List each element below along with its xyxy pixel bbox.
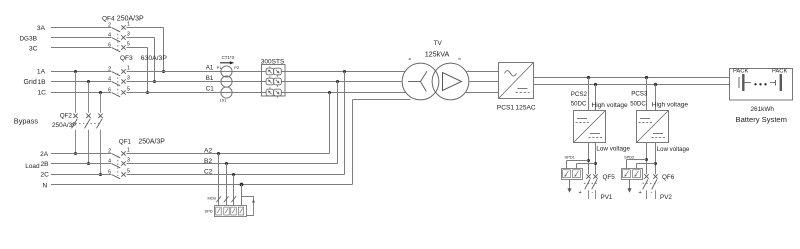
wire SPD2 stub positive (627, 159, 647, 161)
transformer primary winding (402, 63, 439, 100)
svg-text:125AC: 125AC (516, 104, 536, 111)
svg-text:261kWh: 261kWh (751, 106, 775, 113)
svg-text:5: 5 (127, 168, 130, 174)
svg-text:N: N (43, 182, 48, 189)
junction SPD tap A2 (217, 152, 220, 155)
wire 3C left (51, 47, 111, 49)
svg-text:MCB: MCB (208, 197, 217, 201)
junction QF4-A on 1A (162, 70, 165, 73)
svg-text:3: 3 (127, 157, 130, 163)
breaker QF5 pole 1 (586, 174, 590, 178)
svg-text:High voltage: High voltage (652, 102, 689, 109)
wire SPD drop A2 (218, 154, 220, 206)
converter PCS2 DC symbol bottom (590, 133, 600, 135)
svg-text:PV2: PV2 (660, 194, 672, 201)
svg-text:QF6: QF6 (662, 174, 675, 181)
svg-text:2C: 2C (41, 172, 50, 179)
svg-text:2A: 2A (40, 151, 49, 158)
SPD2 box (622, 169, 643, 180)
breaker QF2 pole 1 (72, 72, 78, 154)
breaker QF3 pole 2 (pins 4-3) (108, 75, 130, 86)
junction riser on C1 (328, 91, 331, 94)
wire PCS2 drop positive (588, 78, 590, 111)
CT on phase B (221, 76, 232, 87)
wire PCS2 out positive (588, 143, 590, 175)
svg-text:-: - (592, 190, 594, 196)
battery cell left (738, 77, 740, 88)
junction QF4-C on 1C (146, 91, 149, 94)
breaker QF4 pole 1 (pins 2-1) (108, 21, 130, 32)
svg-text:Grid: Grid (24, 79, 37, 86)
svg-text:QF5: QF5 (603, 174, 616, 181)
wire B2 bus (127, 163, 338, 165)
svg-text:4: 4 (108, 33, 111, 39)
svg-text:SPD: SPD (205, 209, 213, 214)
svg-text:3A: 3A (37, 25, 46, 32)
junction bypass tap 1B (87, 80, 90, 83)
junction QF4-B on 1B (153, 80, 156, 83)
SPD earth loop arrow (252, 199, 255, 203)
svg-text:PACK: PACK (772, 68, 787, 74)
wire C1 bus (127, 92, 406, 94)
junction PCS3 positive tap (645, 76, 648, 79)
CT1 direction arrow (220, 62, 231, 64)
svg-text:1: 1 (127, 147, 130, 153)
breaker QF5 gang link (584, 182, 599, 184)
svg-text:DG: DG (20, 35, 29, 42)
svg-text:C1: C1 (206, 85, 214, 92)
svg-text:3: 3 (127, 75, 130, 81)
svg-text:-: - (651, 190, 653, 196)
wire 3A to QF4 out (127, 27, 164, 29)
svg-text:6: 6 (108, 43, 111, 49)
SPD disconnect blade B (224, 196, 229, 202)
svg-text:Load: Load (25, 163, 40, 170)
svg-text:1B: 1B (38, 79, 47, 86)
svg-text:250A/3P: 250A/3P (117, 16, 144, 23)
breaker QF2 gang link (72, 123, 102, 125)
wire 3B to QF4 out (127, 37, 155, 39)
load SPD arrester C (231, 207, 236, 215)
svg-text:QF2: QF2 (60, 112, 73, 119)
converter PCS2 diagonal (574, 111, 606, 143)
SPD2 arrester cell 1 (623, 170, 631, 178)
breaker QF4 gang link (117, 30, 119, 50)
wire riser C1-A2 (329, 93, 331, 154)
wire 2B left (51, 163, 111, 165)
CT on phase C (221, 87, 232, 98)
svg-text:PACK: PACK (733, 68, 748, 74)
wire B1 bus (127, 81, 403, 83)
svg-text:Low voltage: Low voltage (657, 146, 690, 153)
wire QF4 drop B (154, 38, 156, 82)
svg-text:CT1*3: CT1*3 (222, 55, 235, 60)
svg-text:Low voltage: Low voltage (596, 145, 630, 152)
breaker QF1 pole 1 (pins 2-1) (108, 147, 130, 158)
STS thyristor pair phase A (266, 66, 281, 77)
wire SPD1 stub positive (567, 160, 589, 162)
svg-text:QF1: QF1 (119, 139, 132, 146)
junction SPD2 tap negative (654, 162, 657, 165)
svg-text:PCS3: PCS3 (631, 90, 648, 97)
SPD2 earth arrow (629, 180, 631, 190)
svg-text:1A: 1A (37, 69, 46, 76)
svg-text:5: 5 (127, 41, 130, 47)
svg-text:1S1: 1S1 (220, 99, 227, 103)
svg-text:PV1: PV1 (601, 194, 613, 201)
svg-text:Bypass: Bypass (14, 117, 39, 126)
svg-text:SPD2: SPD2 (624, 154, 634, 159)
svg-text:50DC: 50DC (571, 101, 587, 108)
wire SPD drop C2 (233, 175, 235, 206)
breaker QF1 pole 2 (pins 4-3) (108, 157, 130, 168)
wire PCS2 out negative (595, 143, 597, 175)
SPD1 earth arrow (569, 180, 571, 190)
wire SPD drop N (241, 185, 243, 206)
breaker QF3 gang link (117, 74, 119, 94)
svg-text:125kVA: 125kVA (425, 49, 450, 58)
svg-text:1: 1 (127, 21, 130, 27)
junction bypass 2B (87, 162, 90, 165)
breaker QF6 pole 1 (644, 174, 648, 178)
wire PCS3 drop negative (655, 85, 657, 111)
svg-text:+: + (639, 190, 642, 196)
breaker QF4 pole 2 (pins 4-3) (108, 31, 130, 42)
junction PCS2 positive tap (587, 76, 590, 79)
breaker QF5 pole 2 (593, 174, 597, 178)
wire PCS3 out negative (655, 143, 657, 175)
junction bypass 2A (74, 152, 77, 155)
wire PCS2 drop negative (595, 85, 597, 111)
breaker QF2 pole 2 (85, 82, 91, 164)
breaker QF3 pole 3 (pins 6-5) (108, 86, 130, 97)
converter PCS3 DC symbol bottom (653, 133, 663, 135)
wire C2 bus (127, 174, 345, 176)
CT on phase A (221, 66, 232, 77)
converter PCS1 DC symbol (518, 88, 528, 90)
STS thyristor pair phase C (266, 87, 281, 98)
battery dots (754, 83, 756, 85)
wire A2 bus (127, 153, 330, 155)
svg-text:50DC: 50DC (630, 100, 646, 107)
svg-text:PCS2: PCS2 (571, 91, 588, 98)
junction riser on B1 (336, 80, 339, 83)
converter PCS1 diagonal (499, 63, 534, 99)
transformer wye symbol (408, 81, 421, 83)
svg-text:2: 2 (108, 23, 111, 29)
converter PCS2 DC symbol top (577, 118, 587, 120)
wire N to transformer (353, 99, 411, 101)
wire 3B left (51, 37, 111, 39)
wire SPD earth loop (242, 197, 254, 216)
battery box (730, 69, 793, 101)
converter PCS2 box (574, 111, 606, 143)
load SPD arrester B (224, 207, 229, 215)
SPD disconnect blade C (231, 196, 236, 202)
wire 3A left (51, 27, 111, 29)
converter PCS1 box (499, 63, 534, 99)
load SPD box (215, 206, 247, 217)
svg-text:A1: A1 (206, 64, 214, 71)
SPD disconnect blade A (216, 196, 221, 202)
wire xfmr-PCS1 A (466, 71, 499, 73)
junction SPD1 tap negative (594, 162, 597, 165)
wire N (51, 184, 353, 186)
junction bypass 2C (99, 173, 102, 176)
breaker QF6 gang link (643, 182, 659, 184)
svg-text:5: 5 (127, 86, 130, 92)
junction PCS3 negative tap (654, 83, 657, 86)
svg-text:B1: B1 (206, 75, 214, 82)
svg-text:PCS1: PCS1 (497, 104, 515, 111)
wire N riser (352, 100, 354, 185)
svg-text:6: 6 (108, 88, 111, 94)
junction SPD1 tap positive (587, 159, 590, 162)
svg-text:6: 6 (108, 170, 111, 176)
svg-text:Battery System: Battery System (736, 115, 787, 124)
wire SPD2 stub negative (637, 163, 656, 165)
converter PCS3 box (637, 111, 669, 143)
SPD1 box (562, 169, 583, 180)
junction PCS2 negative tap (594, 83, 597, 86)
wire 2A left (51, 153, 111, 155)
svg-text:TV: TV (434, 40, 443, 47)
converter PCS1 AC symbol (505, 71, 517, 76)
breaker QF2 pole 3 (97, 93, 103, 175)
breaker QF6 pole 2 (653, 174, 657, 178)
wire QF4 drop C (147, 48, 149, 93)
breaker QF1 pole 3 (pins 6-5) (108, 168, 130, 179)
junction SPD tap B2 (225, 162, 228, 165)
svg-text:2B: 2B (41, 161, 50, 168)
wire QF4 drop A (163, 28, 165, 72)
wire 1A left (51, 71, 111, 73)
svg-text:High voltage: High voltage (592, 102, 629, 109)
svg-text:1: 1 (127, 65, 130, 71)
wire SPD drop B2 (226, 164, 228, 206)
breaker QF1 gang link (117, 156, 119, 176)
svg-text:SPD1: SPD1 (565, 154, 575, 159)
svg-text:3C: 3C (29, 45, 38, 52)
converter PCS3 diagonal (637, 111, 669, 143)
svg-text:4: 4 (108, 159, 111, 165)
svg-text:250A/3P: 250A/3P (138, 139, 165, 146)
svg-text:4: 4 (108, 77, 111, 83)
SPD1 arrester cell 1 (563, 170, 571, 178)
svg-text:P2: P2 (234, 65, 240, 70)
SPD2 arrester cell 2 (633, 170, 641, 178)
junction SPD tap C2 (232, 173, 235, 176)
breaker QF4 pole 3 (pins 6-5) (108, 41, 130, 52)
STS box (262, 65, 286, 97)
wire xfmr-PCS1 C (465, 92, 498, 94)
STS thyristor pair phase B (266, 76, 281, 87)
svg-text:1C: 1C (38, 90, 47, 97)
transformer delta symbol (443, 73, 462, 91)
junction SPD2 tap positive (645, 158, 648, 161)
wire DC bus positive (534, 77, 730, 79)
wire xfmr-PCS1 B (469, 81, 499, 83)
svg-text:630A/3P: 630A/3P (141, 55, 168, 62)
svg-text:3: 3 (127, 31, 130, 37)
SPD1 arrester cell 2 (573, 170, 581, 178)
wire PCS3 out positive (646, 143, 648, 175)
wire riser B1-B2 (337, 82, 339, 164)
junction bypass tap 1A (74, 70, 77, 73)
transformer secondary winding (432, 63, 469, 100)
junction bypass tap 1C (99, 91, 102, 94)
wire 1B left (51, 81, 111, 83)
svg-text:2: 2 (108, 149, 111, 155)
svg-text:2: 2 (108, 67, 111, 73)
wire PCS3 drop positive (646, 78, 648, 111)
converter PCS3 DC symbol top (640, 118, 650, 120)
svg-text:3B: 3B (29, 35, 38, 42)
wire DC bus negative (534, 84, 730, 86)
wire 2C left (51, 174, 111, 176)
wire A1 bus (127, 71, 405, 73)
svg-text:+: + (579, 190, 582, 196)
junction SPD tap N (240, 183, 244, 187)
junction riser on A1 (343, 70, 346, 73)
svg-text:QF3: QF3 (120, 55, 133, 62)
breaker QF3 pole 1 (pins 2-1) (108, 65, 130, 76)
wire 3C to QF4 out (127, 47, 148, 49)
wire riser A1-C2 (344, 72, 346, 175)
load SPD arrester N (238, 207, 243, 215)
wire SPD1 stub negative (577, 163, 596, 165)
wire 1C left (51, 92, 111, 94)
load SPD arrester A (216, 207, 221, 215)
battery cell right (770, 82, 775, 84)
